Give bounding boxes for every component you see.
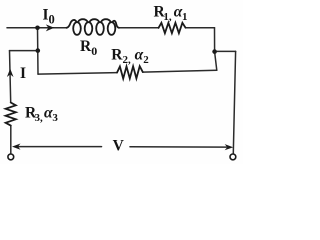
svg-text:R0: R0 — [80, 38, 97, 58]
svg-text:I: I — [20, 65, 26, 82]
wire: left rail lower — [10, 126, 12, 154]
wire: right vertical lower (to middle branch) — [215, 52, 217, 71]
wire: left rail upper — [10, 51, 11, 103]
inductor R0: arc 2 — [90, 19, 99, 21]
inductor R0: eye loop 4 — [108, 22, 116, 35]
inductor R0: arc 3 — [101, 19, 110, 21]
wire: top lead-in — [7, 27, 67, 29]
svg-text:V: V — [113, 138, 125, 155]
voltage arrow line left — [18, 146, 102, 148]
svg-text:R3, α3: R3, α3 — [25, 104, 58, 123]
svg-text:R2, α2: R2, α2 — [111, 47, 149, 66]
wire: junction B to right rail — [215, 50, 236, 52]
node A junction dot — [35, 26, 40, 31]
voltage arrow right head — [225, 144, 234, 150]
current arrow I head (upward) — [7, 69, 14, 77]
wire: connector node C to left rail — [10, 50, 38, 52]
svg-text:R1, α1: R1, α1 — [154, 4, 188, 23]
inductor R0: eye loop 2 — [85, 22, 93, 35]
resistor R2 zigzag — [117, 66, 143, 78]
wire: node column vertical — [37, 28, 40, 74]
voltage arrow line right — [130, 146, 227, 148]
svg-text:I0: I0 — [43, 7, 55, 27]
inductor R0: entry hook — [67, 20, 77, 28]
node C junction dot — [36, 48, 41, 53]
node B junction dot — [212, 49, 217, 54]
wire: top between coil and R1 — [119, 27, 159, 29]
wire: top right to corner — [186, 27, 215, 29]
inductor R0: eye loop 1 — [73, 22, 81, 35]
terminal: bottom left open circle — [8, 154, 14, 160]
wire: middle branch right of R2 — [143, 70, 217, 72]
wire: middle branch left of R2 — [38, 73, 117, 75]
resistor R3 zigzag — [6, 103, 16, 126]
terminal: bottom right open circle — [230, 154, 236, 160]
inductor R0: arc 1 — [78, 19, 87, 21]
wire: right rail — [233, 51, 235, 153]
current arrow I0 head — [46, 24, 55, 31]
voltage arrow left head — [12, 144, 21, 150]
inductor R0: exit hook — [113, 21, 119, 28]
inductor R0: eye loop 3 — [96, 22, 104, 35]
wire: right vertical joining the two branches — [214, 28, 216, 52]
resistor R1 zigzag — [159, 23, 186, 33]
